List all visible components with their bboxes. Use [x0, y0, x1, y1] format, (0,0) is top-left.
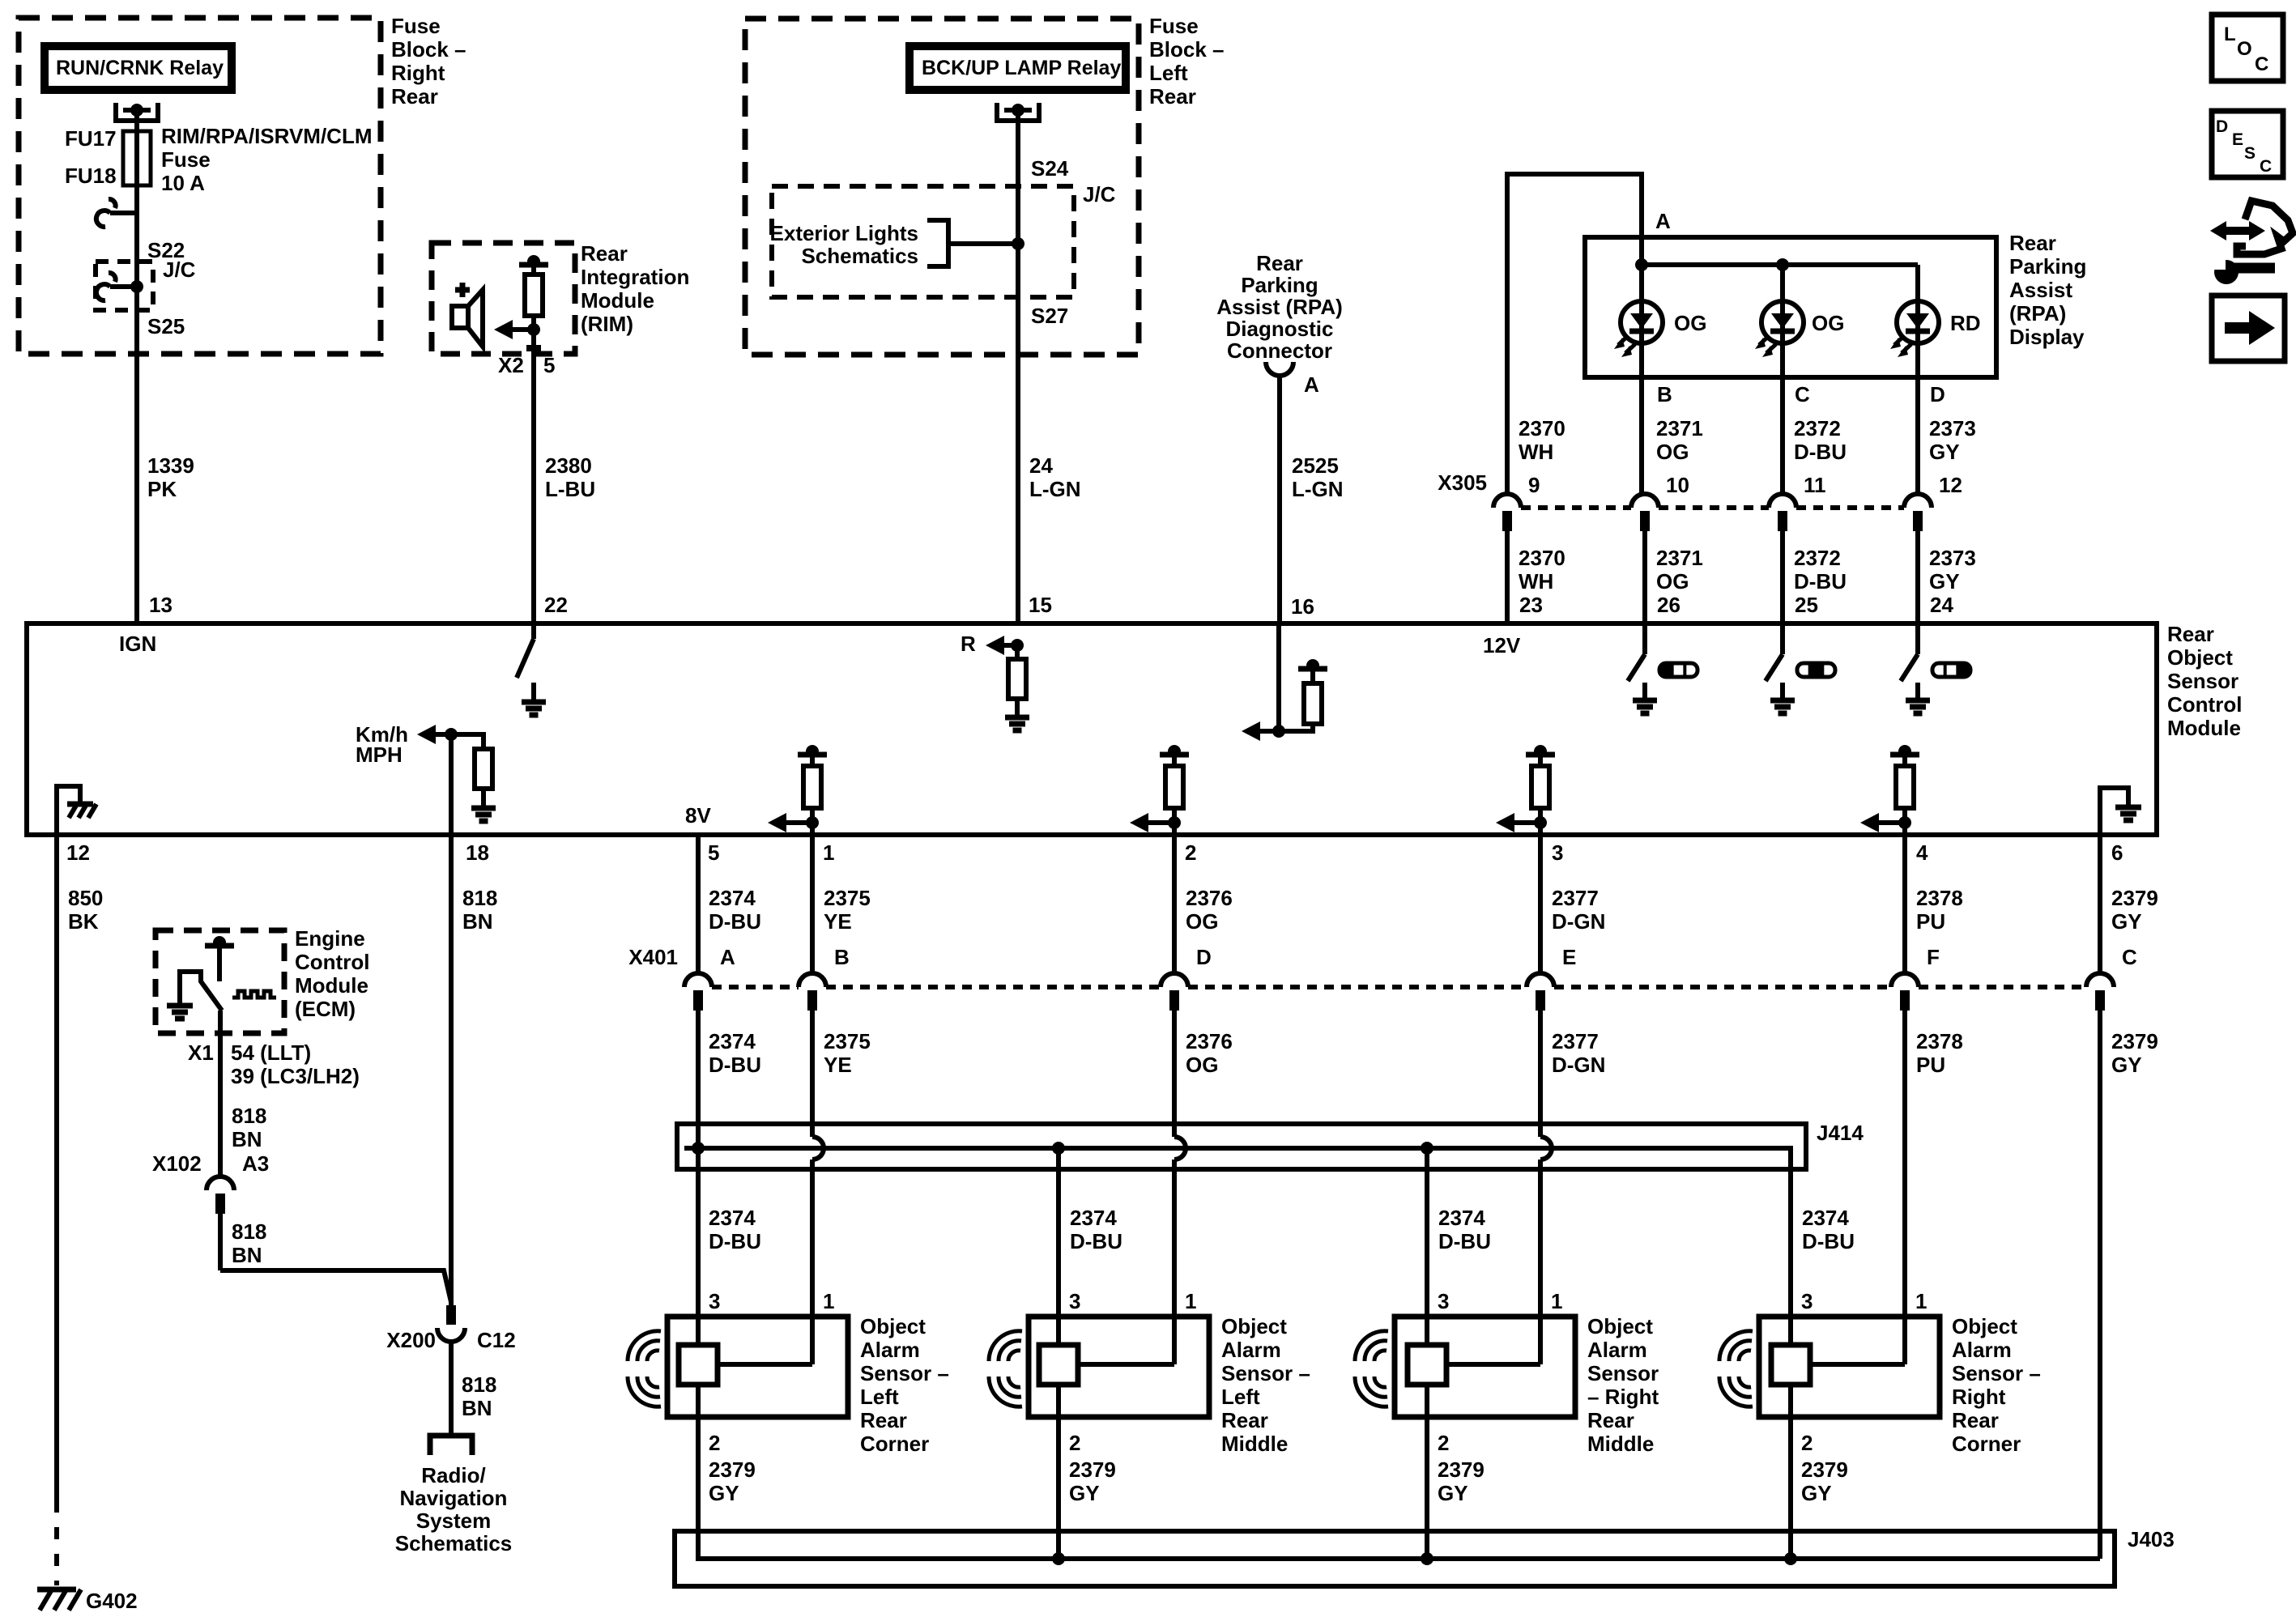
svg-text:Rear: Rear [1149, 84, 1196, 109]
sensor 1 internal link [718, 1362, 812, 1367]
fuse FU17/FU18 10A [123, 131, 151, 185]
svg-text:Left: Left [860, 1385, 899, 1409]
svg-text:2378: 2378 [1916, 886, 1963, 910]
svg-text:2372: 2372 [1794, 416, 1841, 440]
relay K: RUN/CRNK Relay box [45, 46, 232, 90]
svg-text:2374: 2374 [709, 886, 756, 910]
terminal internal pin 3 [1526, 752, 1555, 758]
node J414 sensor3 tap [1421, 1142, 1433, 1155]
svg-text:E: E [2232, 130, 2243, 149]
arrow internal pin 3 [1496, 813, 1514, 832]
svg-text:Object: Object [2167, 645, 2233, 670]
svg-text:Right: Right [1952, 1385, 2006, 1409]
svg-text:L-GN: L-GN [1292, 477, 1344, 501]
svg-text:Rear: Rear [860, 1408, 907, 1432]
svg-text:1: 1 [1915, 1289, 1927, 1313]
svg-text:PK: PK [147, 477, 177, 501]
rear parking assist display box [1585, 237, 1996, 377]
LED indicator D (RD) [1897, 301, 1939, 343]
svg-text:2375: 2375 [824, 886, 871, 910]
node J403 sensor2 [1052, 1552, 1065, 1565]
svg-text:2380: 2380 [545, 453, 592, 478]
svg-text:Rear: Rear [391, 84, 438, 109]
wire sensor 4 pin 2 to J403 [1788, 1385, 1793, 1559]
svg-text:2: 2 [709, 1431, 720, 1455]
svg-text:BK: BK [68, 909, 99, 934]
svg-text:S27: S27 [1031, 304, 1068, 328]
svg-text:OG: OG [1812, 311, 1844, 335]
svg-text:23: 23 [1519, 593, 1543, 617]
svg-text:Assist: Assist [2009, 278, 2072, 302]
svg-text:GY: GY [1801, 1481, 1832, 1505]
svg-text:WH: WH [1519, 440, 1553, 464]
svg-text:3: 3 [709, 1289, 720, 1313]
icon DESC box [2212, 111, 2283, 177]
node relay 2 output [1012, 104, 1024, 117]
dashed line X305 [1521, 505, 1631, 510]
svg-text:F: F [1927, 945, 1940, 969]
connector X401 cavity B [799, 973, 826, 987]
connector X305 cavity 12 [1904, 494, 1932, 508]
node J414 sensor2 tap [1052, 1142, 1065, 1155]
svg-text:A: A [1304, 372, 1319, 397]
terminal internal pin 1 [798, 752, 827, 758]
svg-text:13: 13 [149, 593, 173, 617]
node S27 junction [1012, 237, 1024, 250]
svg-text:Corner: Corner [1952, 1432, 2021, 1456]
svg-text:Exterior Lights: Exterior Lights [770, 221, 918, 245]
svg-text:2379: 2379 [1438, 1457, 1485, 1482]
svg-text:10: 10 [1666, 473, 1689, 497]
svg-text:2374: 2374 [1070, 1206, 1117, 1230]
terminal with dot in RIM [519, 262, 548, 268]
svg-text:1: 1 [823, 840, 834, 865]
svg-text:818: 818 [232, 1219, 266, 1244]
object alarm sensor 4 box [1759, 1317, 1940, 1417]
svg-text:Left: Left [1149, 61, 1188, 85]
svg-text:818: 818 [232, 1104, 266, 1128]
resistor internal pin 16 [1279, 724, 1313, 731]
resistor internal pin 1 [810, 755, 815, 766]
svg-text:D-GN: D-GN [1552, 909, 1605, 934]
ground internal pin 18 [481, 789, 486, 808]
wire bracket to S27 junction [948, 241, 1018, 246]
svg-text:L-GN: L-GN [1029, 477, 1081, 501]
terminal internal pin 2 [1160, 752, 1189, 758]
indicator pill 24 [1932, 663, 1970, 677]
svg-text:MPH: MPH [356, 743, 403, 767]
indicator pill 25 [1797, 663, 1835, 677]
svg-text:J403: J403 [2128, 1527, 2175, 1551]
node display bus B [1635, 258, 1648, 271]
svg-text:2377: 2377 [1552, 1029, 1599, 1053]
svg-text:Diagnostic: Diagnostic [1226, 317, 1334, 341]
svg-text:10 A: 10 A [161, 171, 205, 195]
svg-text:D-BU: D-BU [1070, 1229, 1122, 1253]
svg-text:12: 12 [1939, 473, 1962, 497]
wire X305-9 to pin 23 [1505, 531, 1510, 623]
node internal pin 2 [1168, 816, 1181, 829]
svg-text:D: D [1930, 382, 1945, 406]
svg-text:(ECM): (ECM) [295, 997, 356, 1021]
svg-text:24: 24 [1029, 453, 1053, 478]
svg-text:J/C: J/C [163, 257, 196, 282]
svg-text:4: 4 [1916, 840, 1928, 865]
svg-text:Schematics: Schematics [395, 1531, 513, 1555]
wire relay to fuse [134, 110, 139, 131]
arrow internal pin 16 [1242, 721, 1260, 741]
sensor 2 internal link [1078, 1362, 1174, 1367]
switch internal pin 24 [1915, 623, 1920, 654]
sensor 2 transducer square [1039, 1345, 1078, 1385]
wire fuse down to pin 13 [134, 185, 139, 623]
svg-text:2373: 2373 [1929, 416, 1976, 440]
svg-text:2379: 2379 [1801, 1457, 1848, 1482]
svg-text:Corner: Corner [860, 1432, 929, 1456]
node internal pin 3 [1534, 816, 1547, 829]
svg-text:FU17: FU17 [65, 126, 117, 151]
svg-text:GY: GY [1929, 569, 1960, 594]
node J403 sensor4 [1784, 1552, 1797, 1565]
splice pack J414 box [677, 1124, 1806, 1169]
svg-text:PU: PU [1916, 909, 1945, 934]
svg-text:GY: GY [2111, 909, 2142, 934]
svg-text:G402: G402 [86, 1589, 138, 1613]
svg-text:System: System [416, 1508, 492, 1533]
connector RPA diag cavity A [1266, 362, 1293, 376]
svg-text:Sensor –: Sensor – [1221, 1361, 1310, 1385]
hop 2375 over J414 [812, 1137, 824, 1160]
wire X401-C to J403 [2098, 1011, 2102, 1559]
icon LOC box [2212, 15, 2283, 81]
svg-text:J/C: J/C [1083, 182, 1116, 206]
svg-text:Fuse: Fuse [161, 147, 211, 172]
object alarm sensor 2 box [1029, 1317, 1209, 1417]
svg-text:Rear: Rear [2167, 622, 2214, 646]
svg-text:Alarm: Alarm [860, 1338, 920, 1362]
svg-text:D-BU: D-BU [1438, 1229, 1491, 1253]
svg-text:OG: OG [1656, 440, 1689, 464]
svg-text:D-BU: D-BU [709, 909, 761, 934]
svg-text:Block –: Block – [391, 37, 466, 62]
hop 2376 over J414 [1174, 1137, 1186, 1160]
svg-text:Rear: Rear [1221, 1408, 1268, 1432]
svg-text:L: L [2224, 23, 2236, 45]
svg-text:1: 1 [823, 1289, 834, 1313]
off-page connector to radio [430, 1436, 472, 1455]
svg-text:C: C [2255, 53, 2268, 75]
wire X401-B to sensor1 pin1 [810, 1011, 815, 1137]
svg-text:Module: Module [2167, 716, 2241, 740]
wire pin 2 to X401-D [1172, 835, 1177, 973]
wire X305-10 to pin 26 [1642, 531, 1647, 623]
svg-text:54 (LLT): 54 (LLT) [231, 1040, 311, 1065]
svg-text:2379: 2379 [709, 1457, 756, 1482]
speaker symbol [452, 306, 468, 328]
connector X200 cavity C12 [437, 1328, 465, 1342]
switch internal ECM [180, 972, 222, 1011]
relay terminal bracket 2 [997, 103, 1039, 121]
svg-text:2375: 2375 [824, 1029, 871, 1053]
svg-text:Sensor –: Sensor – [1952, 1361, 2041, 1385]
svg-text:Rear: Rear [1587, 1408, 1634, 1432]
wire pin 3 to X401-E [1538, 835, 1543, 973]
svg-text:Rear: Rear [2009, 231, 2056, 255]
svg-text:(RPA): (RPA) [2009, 301, 2066, 326]
wire loop pin A feed [1507, 174, 1642, 493]
wire 850 BK from pin 12 [54, 835, 59, 1500]
svg-text:Alarm: Alarm [1587, 1338, 1647, 1362]
terminal internal pin 4 [1890, 752, 1919, 758]
rear integration module dashed box [432, 243, 575, 354]
svg-text:2371: 2371 [1656, 546, 1703, 570]
svg-text:2372: 2372 [1794, 546, 1841, 570]
wire X401-A to J414 [696, 1011, 701, 1148]
connector X401 cavity D [1161, 973, 1188, 987]
svg-text:Parking: Parking [2009, 254, 2086, 279]
svg-text:X1: X1 [188, 1040, 214, 1065]
svg-text:5: 5 [543, 353, 555, 377]
svg-text:Radio/: Radio/ [421, 1463, 485, 1487]
wire J414 to sensor3 pin3 [1425, 1148, 1429, 1345]
svg-text:2374: 2374 [1802, 1206, 1849, 1230]
node internal pin 4 [1898, 816, 1911, 829]
svg-text:3: 3 [1552, 840, 1563, 865]
svg-text:Control: Control [2167, 692, 2242, 717]
svg-text:3: 3 [1069, 1289, 1080, 1313]
svg-text:11: 11 [1804, 473, 1826, 497]
wire LED C branch [1780, 265, 1785, 493]
svg-text:YE: YE [824, 1053, 852, 1077]
svg-text:Alarm: Alarm [1952, 1338, 2012, 1362]
sensor 4 transducer square [1771, 1345, 1810, 1385]
svg-text:D: D [2216, 117, 2228, 136]
svg-text:2374: 2374 [1438, 1206, 1485, 1230]
sensor 3 transducer square [1408, 1345, 1446, 1385]
wire X305-11 to pin 25 [1780, 531, 1785, 623]
ground G402 [37, 1587, 76, 1593]
splice hook below fuse [110, 211, 137, 215]
sensor 3 internal link [1446, 1362, 1540, 1367]
svg-text:RIM/RPA/ISRVM/CLM: RIM/RPA/ISRVM/CLM [161, 124, 372, 148]
connector X305 cavity 11 [1769, 494, 1796, 508]
svg-text:C12: C12 [477, 1328, 516, 1352]
bus J403 [698, 1417, 2100, 1559]
svg-text:8V: 8V [685, 803, 711, 828]
svg-text:Object: Object [1221, 1314, 1287, 1338]
svg-text:E: E [1562, 945, 1576, 969]
svg-text:X401: X401 [628, 945, 678, 969]
svg-text:BN: BN [462, 1396, 492, 1420]
resistor internal pin 2 [1172, 755, 1177, 766]
svg-text:Object: Object [1587, 1314, 1653, 1338]
wire pin 5 to X401-A [696, 835, 701, 973]
svg-text:Object: Object [1952, 1314, 2017, 1338]
svg-text:818: 818 [462, 886, 497, 910]
node pin15 junction [1011, 639, 1024, 652]
node: relay output junction [130, 104, 143, 117]
bracket exterior lights [927, 220, 948, 266]
svg-text:2373: 2373 [1929, 546, 1976, 570]
display internal bus [1642, 262, 1918, 267]
svg-text:R: R [961, 632, 976, 656]
relay K: BCK/UP LAMP Relay box [909, 46, 1126, 90]
sensor 2 sound waves [1008, 1351, 1020, 1361]
svg-text:Fuse: Fuse [391, 14, 441, 38]
svg-text:2374: 2374 [709, 1206, 756, 1230]
svg-text:GY: GY [2111, 1053, 2142, 1077]
svg-text:12V: 12V [1483, 633, 1521, 657]
svg-text:D-BU: D-BU [709, 1229, 761, 1253]
svg-text:D: D [1196, 945, 1212, 969]
terminal internal pin 16 [1298, 666, 1327, 672]
svg-text:A: A [1655, 209, 1671, 233]
svg-text:1: 1 [1185, 1289, 1196, 1313]
ground internal pin 6 [2100, 788, 2128, 835]
svg-text:C: C [1795, 382, 1810, 406]
svg-text:Module: Module [581, 288, 654, 313]
hop 2377 over J414 [1540, 1137, 1552, 1160]
svg-text:26: 26 [1657, 593, 1680, 617]
arrow internal pin 2 [1130, 813, 1148, 832]
svg-text:Rear: Rear [1952, 1408, 1999, 1432]
svg-text:3: 3 [1801, 1289, 1813, 1313]
svg-text:Engine: Engine [295, 926, 365, 951]
svg-text:Rear: Rear [1256, 251, 1303, 275]
icon arrow box [2212, 296, 2285, 361]
svg-text:Sensor: Sensor [1587, 1361, 1659, 1385]
svg-text:25: 25 [1795, 593, 1818, 617]
svg-text:Integration: Integration [581, 265, 689, 289]
svg-text:BCK/UP LAMP Relay: BCK/UP LAMP Relay [922, 57, 1121, 79]
svg-text:Schematics: Schematics [801, 244, 918, 268]
svg-text:818: 818 [462, 1372, 496, 1397]
engine control module dashed box [155, 930, 284, 1033]
ground internal pin 22 [531, 683, 536, 702]
svg-text:A3: A3 [242, 1151, 269, 1176]
svg-text:850: 850 [68, 886, 103, 910]
svg-text:Object: Object [860, 1314, 926, 1338]
svg-text:2370: 2370 [1519, 546, 1565, 570]
ground internal pin 15 [1015, 699, 1020, 717]
svg-text:BN: BN [462, 909, 493, 934]
svg-text:WH: WH [1519, 569, 1553, 594]
svg-text:A: A [720, 945, 735, 969]
svg-text:D-BU: D-BU [1794, 440, 1847, 464]
svg-text:Middle: Middle [1587, 1432, 1654, 1456]
svg-text:D-GN: D-GN [1552, 1053, 1605, 1077]
node S25 junction [130, 280, 143, 293]
arrow internal pin 4 [1860, 813, 1879, 832]
arrow internal pin 1 [768, 813, 786, 832]
svg-text:1: 1 [1551, 1289, 1562, 1313]
svg-text:12: 12 [66, 840, 90, 865]
wire relay 2 down to pin 15 [1016, 110, 1020, 623]
svg-text:(RIM): (RIM) [581, 312, 633, 336]
svg-text:3: 3 [1438, 1289, 1449, 1313]
svg-text:2374: 2374 [709, 1029, 756, 1053]
svg-text:YE: YE [824, 909, 852, 934]
svg-text:Sensor: Sensor [2167, 669, 2238, 693]
arrow into speaker [494, 320, 513, 339]
svg-text:BN: BN [232, 1243, 262, 1267]
splice hook S25 [110, 284, 137, 289]
svg-text:2: 2 [1185, 840, 1196, 865]
switch internal pin 22 [531, 623, 536, 639]
svg-text:X2: X2 [498, 353, 524, 377]
resistor internal pin 3 [1538, 755, 1543, 766]
svg-text:22: 22 [544, 593, 568, 617]
wire pin 18 to X200 [449, 835, 454, 1305]
wire J414 to sensor2 pin3 [1056, 1148, 1061, 1345]
svg-text:2371: 2371 [1656, 416, 1703, 440]
svg-text:6: 6 [2111, 840, 2123, 865]
node RIM output [527, 323, 540, 336]
terminal internal ECM [205, 943, 234, 949]
resistor internal pin 4 [1902, 755, 1907, 766]
svg-text:– Right: – Right [1587, 1385, 1659, 1409]
svg-text:5: 5 [708, 840, 719, 865]
svg-text:B: B [1657, 382, 1672, 406]
svg-text:S: S [2244, 144, 2256, 163]
svg-text:2377: 2377 [1552, 886, 1599, 910]
svg-text:OG: OG [1186, 1053, 1218, 1077]
relay terminal bracket [116, 103, 158, 121]
wire X401-D to sensor2 pin1 [1172, 1011, 1177, 1137]
sensor 3 sound waves [1374, 1351, 1387, 1361]
svg-text:RD: RD [1950, 311, 1981, 335]
indicator pill 26 [1659, 663, 1698, 677]
svg-text:2370: 2370 [1519, 416, 1565, 440]
svg-text:Left: Left [1221, 1385, 1260, 1409]
wire sensor 1 pin 2 to J403 [696, 1385, 701, 1559]
node pin18 junction [445, 728, 458, 741]
arrow R output [986, 636, 1004, 655]
svg-text:BN: BN [232, 1127, 262, 1151]
svg-text:Connector: Connector [1227, 338, 1332, 363]
connector X401 cavity A [684, 973, 712, 987]
svg-text:RUN/CRNK Relay: RUN/CRNK Relay [56, 57, 224, 79]
svg-text:B: B [834, 945, 850, 969]
wire internal pin 16 [1276, 623, 1281, 731]
sensor 1 sound waves [647, 1351, 659, 1361]
svg-text:Sensor –: Sensor – [860, 1361, 949, 1385]
node J403 sensor3 [1421, 1552, 1433, 1565]
svg-text:Module: Module [295, 973, 368, 998]
switch internal pin 25 [1780, 623, 1785, 654]
wire pin 1 to X401-B [810, 835, 815, 973]
connector X102 cavity A3 [207, 1177, 234, 1190]
wire LED B branch [1639, 265, 1644, 493]
svg-text:X102: X102 [152, 1151, 202, 1176]
svg-text:GY: GY [1929, 440, 1960, 464]
wire 850 BK dashed section [54, 1500, 59, 1585]
resistor in RIM [531, 316, 536, 330]
wire pin 6 to X401-C [2098, 835, 2102, 973]
resistor internal pin 15 [1015, 645, 1020, 659]
svg-text:OG: OG [1656, 569, 1689, 594]
svg-text:D-BU: D-BU [1794, 569, 1847, 594]
connector X401 cavity F [1891, 973, 1919, 987]
wire X401-F to sensor4 pin1 [1902, 1011, 1907, 1364]
svg-text:J414: J414 [1817, 1121, 1864, 1145]
svg-text:L-BU: L-BU [545, 477, 595, 501]
chassis ground internal pin 12 [57, 786, 80, 835]
wire X305-12 to pin 24 [1915, 531, 1920, 623]
svg-text:IGN: IGN [119, 632, 156, 656]
speaker plus sign [455, 287, 470, 293]
svg-text:1339: 1339 [147, 453, 194, 478]
